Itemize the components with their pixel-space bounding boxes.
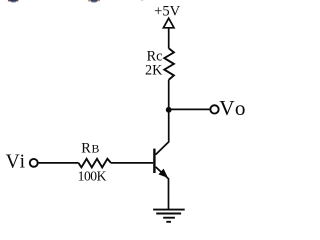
terminal Vi open circle	[30, 159, 38, 167]
svg-text:2K: 2K	[145, 63, 163, 79]
wire: RB to base	[111, 162, 153, 164]
ground	[153, 210, 185, 222]
svg-text:RB: RB	[81, 141, 99, 157]
wire: Rc to collector junction	[168, 80, 170, 111]
svg-text:100K: 100K	[78, 169, 107, 184]
wire: junction to Vo terminal	[169, 108, 211, 110]
terminal Vo open circle	[210, 105, 218, 113]
transistor Q1 emitter lead	[156, 167, 169, 210]
transistor Q1 collector lead	[156, 110, 169, 155]
svg-text:+5V: +5V	[154, 3, 181, 19]
wire: Vi terminal to RB	[38, 162, 79, 164]
resistor Rc	[164, 48, 174, 80]
faint speck top edge	[141, 0, 144, 1]
node: collector junction dot	[166, 107, 172, 113]
cropped text fragment top-left	[8, 0, 18, 2]
transistor Q1 emitter arrow	[158, 169, 168, 178]
power arrow symbol	[163, 18, 174, 28]
transistor Q1 base bar	[153, 149, 155, 173]
wire: arrow to Rc	[168, 28, 170, 49]
svg-text:Vi: Vi	[6, 152, 26, 173]
resistor RB	[79, 159, 111, 168]
svg-text:Vo: Vo	[219, 96, 246, 120]
cropped text fragment top-centre	[88, 0, 100, 3]
